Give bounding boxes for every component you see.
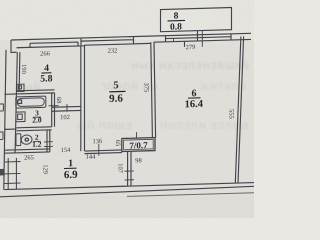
bathroom right wall (double) (52, 93, 55, 127)
svg-text:266: 266 (40, 50, 50, 57)
svg-text:7/0.7: 7/0.7 (129, 140, 148, 151)
dim tick at 279 (174, 30, 203, 47)
right wall (double) (235, 36, 243, 183)
svg-text:ЙИШЙЕНЕЛЕСАН ХЫН: ЙИШЙЕНЕЛЕСАН ХЫН (131, 60, 249, 71)
closet 7 box (double) (122, 138, 155, 152)
svg-text:190: 190 (20, 64, 27, 74)
bathroom top wall (double) (5, 90, 55, 94)
svg-text:265: 265 (24, 154, 34, 161)
bottom wall inner line (5, 183, 254, 190)
svg-text:232: 232 (108, 48, 118, 55)
door ticks in wall below closet (125, 171, 135, 180)
entrance door jamb ladder (8, 158, 16, 190)
ghost bleed-through text rows (14, 60, 249, 132)
svg-text:6.9: 6.9 (64, 169, 78, 181)
room5/room6 wall (double) (151, 42, 156, 138)
corridor wall to room5 (double) (52, 106, 82, 111)
svg-text:107: 107 (117, 163, 124, 174)
svg-text:136: 136 (93, 138, 103, 145)
svg-text:102: 102 (60, 114, 70, 121)
kitchen right / room5 left wall (double) (81, 45, 85, 151)
left inner wall (double) (15, 52, 20, 153)
toilet door ticks (44, 142, 53, 147)
room6 balcony-door window (166, 31, 198, 47)
svg-text:4: 4 (44, 63, 49, 74)
toilet right wall (double) (47, 130, 50, 152)
top wall inner line, kitchen+room5 span (17, 43, 151, 47)
top wall outer line (11, 33, 251, 40)
room5 bottom wall (double) (85, 150, 123, 154)
svg-text:1: 1 (68, 158, 73, 169)
svg-text:279: 279 (186, 44, 196, 51)
bathroom/toilet divider wall (double) (5, 127, 52, 131)
svg-text:375: 375 (143, 82, 150, 92)
svg-text:2.0: 2.0 (32, 115, 42, 124)
svg-text:555: 555 (228, 109, 235, 119)
paper background (0, 0, 254, 218)
svg-text:154: 154 (61, 147, 71, 154)
wall below closet (double) (128, 151, 131, 186)
toilet (16, 133, 32, 145)
kitchen window (30, 42, 78, 47)
svg-text:1.2: 1.2 (32, 140, 42, 149)
toilet bottom wall (double) (5, 149, 50, 153)
svg-text:16.4: 16.4 (185, 99, 204, 111)
tick at room5 door (98, 144, 100, 156)
dark blob on left boundary (0, 169, 4, 176)
svg-text:9.6: 9.6 (109, 93, 123, 105)
bathtub (16, 96, 46, 108)
bathroom sink square (16, 112, 25, 122)
left edge scan marks (0, 104, 3, 111)
left outer boundary line (4, 50, 6, 190)
tick on corridor wall (66, 104, 68, 112)
svg-text:129: 129 (42, 164, 49, 174)
top wall inner line, room6 span (154, 39, 252, 42)
svg-text:144: 144 (86, 154, 96, 161)
entrance door ticks (5, 162, 21, 184)
room6 right window (198, 33, 232, 41)
svg-text:ВОЛСЕ ИЛЕСОП: ВОЛСЕ ИЛЕСОП (159, 121, 248, 132)
bottom wall outer line (0, 186, 254, 197)
bottom extra line right part (127, 193, 254, 197)
tick above closet (136, 132, 138, 138)
room5 window (81, 36, 134, 45)
svg-text:98: 98 (135, 157, 141, 164)
svg-text:0.8: 0.8 (170, 22, 182, 32)
svg-text:65: 65 (114, 140, 121, 147)
balcony 8 box (161, 8, 232, 32)
kitchen stove square (17, 84, 24, 91)
tick 68 dimension (49, 105, 59, 107)
top-left jog of outer wall (11, 40, 17, 53)
svg-text:5.8: 5.8 (40, 73, 52, 84)
svg-text:5: 5 (113, 80, 118, 91)
svg-text:68: 68 (55, 97, 62, 104)
